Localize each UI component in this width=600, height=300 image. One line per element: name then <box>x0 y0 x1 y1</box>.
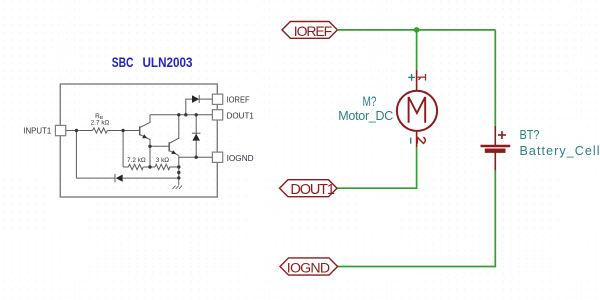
wire diode row right <box>123 177 179 179</box>
wire flyback to IOREF <box>199 98 212 100</box>
battery BT1 bottom plate <box>485 148 506 152</box>
transistor Q1 collector <box>140 115 150 128</box>
junction flyback riser / DOUT1 rail <box>184 113 187 116</box>
junction resistor rail / Q2 base drop <box>148 165 151 168</box>
svg-text:IOGND: IOGND <box>227 154 254 163</box>
resistor 3k zigzag <box>143 164 179 169</box>
svg-text:7.2 kΩ: 7.2 kΩ <box>127 157 146 164</box>
battery BT1 pin 2 <box>494 152 496 170</box>
wire flyback riser <box>186 99 192 115</box>
pin name - (motor pin2, rotated) <box>410 138 412 144</box>
wire Q1 emitter to Q2 base <box>150 145 169 147</box>
svg-text:DOUT1: DOUT1 <box>227 112 255 121</box>
pin INPUT1 <box>55 125 65 135</box>
pin name + (motor pin1) <box>408 74 415 81</box>
wire motor bottom to DOUT1 <box>337 147 417 188</box>
junction diode row / emitter column <box>177 176 180 179</box>
svg-text:Battery_Cell: Battery_Cell <box>520 144 600 158</box>
svg-text:3 kΩ: 3 kΩ <box>156 157 170 164</box>
wire input rail <box>66 130 93 132</box>
wire diode row <box>76 177 115 179</box>
svg-text:IOGND: IOGND <box>287 260 330 276</box>
pin squares <box>55 94 222 162</box>
pin IOGND <box>212 152 222 162</box>
junction 3k / emitter column <box>177 165 180 168</box>
pin number 1 (motor pin1, rotated) <box>418 74 426 81</box>
junction Q1 emitter / Q2 base <box>148 145 151 148</box>
pin DOUT1 <box>212 110 222 120</box>
diode D1 triangle <box>116 175 123 182</box>
battery BT1 top plate <box>481 145 511 148</box>
transistor Q1 base bar <box>139 126 141 135</box>
diode D2 cathode bar <box>198 95 200 103</box>
svg-text:INPUT1: INPUT1 <box>23 127 52 136</box>
svg-text:M?: M? <box>363 94 377 109</box>
svg-text:IOREF: IOREF <box>294 23 332 39</box>
Q1 emitter arrow <box>142 134 147 138</box>
ground symbol <box>173 186 183 189</box>
svg-text:ULN2003: ULN2003 <box>143 54 193 70</box>
wire battery bottom to IOGND <box>338 171 496 267</box>
svg-text:IOREF: IOREF <box>227 95 250 104</box>
transistor Q2 emitter <box>169 151 178 156</box>
wire battery drop <box>494 30 496 126</box>
junction input/clamp-riser <box>75 129 78 132</box>
pin IOREF <box>212 94 222 104</box>
motor M1 circle <box>397 91 437 131</box>
wire input rail to Q1 base <box>107 130 139 132</box>
junction emitter column mid <box>177 171 180 174</box>
wire clamp column <box>195 115 197 157</box>
wire emitter column <box>178 156 180 185</box>
transistor Q2 base bar <box>168 142 170 151</box>
svg-text:Motor_DC: Motor_DC <box>338 109 393 123</box>
motor M letter <box>409 97 426 123</box>
resistor 7.2k zigzag <box>123 164 143 169</box>
wire IOGND rail <box>179 156 213 158</box>
svg-text:DOUT1: DOUT1 <box>290 182 334 198</box>
svg-text:2.7 kΩ: 2.7 kΩ <box>91 120 110 127</box>
motor M1 pin 2 <box>416 131 418 148</box>
symbol body box U1 <box>60 84 217 197</box>
global label DOUT1 <box>280 180 338 197</box>
diode D3 cathode bar <box>192 132 201 134</box>
diode D1 cathode bar <box>114 174 116 182</box>
wire IOREF horizontal <box>337 30 495 267</box>
junction clamp column / DOUT1 rail <box>195 113 198 116</box>
Q2 emitter arrow <box>171 150 176 154</box>
transistor Q2 collector <box>169 115 178 143</box>
wire Q2 base drop <box>149 146 151 167</box>
wire input clamp riser <box>75 131 77 179</box>
global label IOGND <box>280 258 338 275</box>
diode D3 triangle <box>192 134 200 141</box>
wire motor drop <box>416 30 418 70</box>
junction Q1 base / 7.2k riser <box>121 129 124 132</box>
diode D2 triangle <box>192 95 199 103</box>
pin number 2 (motor pin2, rotated) <box>417 137 425 144</box>
battery + sign <box>498 131 506 139</box>
global label IOREF <box>282 22 337 39</box>
battery BT1 pin 1 <box>494 126 496 171</box>
wire DOUT1 rail <box>150 114 212 116</box>
junction Q2 collector / DOUT1 rail <box>177 113 180 116</box>
junction IOREF/motor <box>414 27 420 33</box>
wire 7.2k riser <box>122 131 124 168</box>
resistor RB zigzag <box>93 128 108 133</box>
transistor Q1 emitter <box>140 135 150 147</box>
svg-text:SBC: SBC <box>112 54 134 70</box>
junction clamp column / IOGND rail <box>195 156 198 159</box>
motor M1 pin 1 <box>397 70 437 147</box>
svg-text:BT?: BT? <box>520 128 540 142</box>
